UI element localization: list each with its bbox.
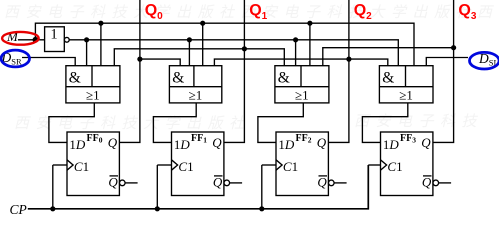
- wire CP riser FF0: [52, 165, 54, 209]
- node Mbar rail tap cell0: [84, 37, 89, 42]
- watermark row 2b: [354, 110, 483, 131]
- label Q1: [249, 4, 267, 24]
- node CP tap FF1: [155, 206, 160, 211]
- flip-flop FF2 box: [276, 132, 328, 196]
- label Q3: [458, 4, 476, 24]
- node M rail tap cell1: [200, 21, 205, 26]
- wire OR output to 1D cell3: [362, 103, 407, 142]
- label CP: [10, 204, 27, 215]
- blue ellipse around DSR: [0, 48, 33, 70]
- flip-flop FF3 box: [381, 132, 433, 196]
- node M input junction: [33, 37, 39, 43]
- wire OR output to 1D cell1: [153, 103, 196, 142]
- wire DSR input: [22, 58, 75, 66]
- wire Mbar stub cell0: [86, 40, 88, 66]
- wire Qbar stub FF1: [230, 182, 242, 184]
- node Q0 feedback tap: [137, 57, 142, 62]
- wire Q2 output: [328, 0, 349, 142]
- node CP tap FF0: [50, 206, 55, 211]
- wire CP rail: [28, 165, 369, 209]
- wire Q0 output: [119, 0, 139, 142]
- wire Q1 output: [224, 0, 245, 142]
- wire Qbar stub FF0: [125, 182, 137, 184]
- flip-flop FF0 clock wedge: [67, 160, 73, 170]
- flip-flop FF3 Qbar bubble: [433, 180, 439, 186]
- watermark row 1: [4, 1, 499, 22]
- wire Qbar stub FF3: [439, 182, 451, 184]
- AND gates cell3: [379, 66, 433, 103]
- node M rail tap cell2: [307, 21, 312, 26]
- node Mbar rail tap cell2: [293, 37, 298, 42]
- wire Q0 to cell1: [140, 59, 180, 66]
- wire OR output to 1D cell0: [49, 103, 94, 142]
- wire C1 input FF2: [262, 164, 276, 166]
- flip-flop FF1 Qbar bubble: [224, 180, 230, 186]
- flip-flop FF1 clock wedge: [172, 160, 178, 170]
- inverter U1 box: [45, 27, 65, 52]
- wire CP riser FF2: [261, 165, 263, 209]
- wire M stub cell2: [309, 23, 311, 65]
- wire Q3 output: [433, 0, 454, 142]
- watermark row 2: [14, 112, 251, 133]
- label Q2: [354, 4, 372, 24]
- AND gates cell1: [169, 66, 221, 103]
- wire Mbar rail: [69, 40, 398, 66]
- node Q3 feedback tap: [451, 45, 456, 50]
- wire M rail: [35, 23, 414, 65]
- blue ellipse around DSL: [467, 51, 499, 71]
- red ellipse around M: [0, 29, 42, 49]
- node Q2 feedback tap: [346, 57, 351, 62]
- wire M input: [18, 39, 45, 41]
- inverter U1 output bubble: [64, 37, 69, 42]
- node CP tap FF2: [259, 206, 264, 211]
- wire Q3 to cell2: [323, 48, 454, 66]
- wire M stub cell1: [202, 23, 204, 65]
- flip-flop FF0 Qbar bubble: [120, 180, 126, 186]
- label Q0: [145, 4, 163, 24]
- wire Q1 to cell0 and cell2: [114, 49, 284, 66]
- flip-flop FF1 box: [172, 132, 224, 196]
- wire Q2 to cell1 and cell3: [214, 59, 387, 66]
- flip-flop FF3 clock wedge: [381, 160, 387, 170]
- flip-flop FF2 Qbar bubble: [329, 180, 335, 186]
- node Q1 feedback tap: [242, 46, 247, 51]
- label DSL: [479, 54, 499, 68]
- wire C1 input FF1: [157, 164, 171, 166]
- flip-flop FF2 clock wedge: [276, 160, 282, 170]
- wire C1 input FF3: [368, 164, 380, 166]
- AND gates cell2: [275, 66, 329, 103]
- wire OR output to 1D cell2: [258, 103, 303, 142]
- wire Mbar stub cell2: [295, 40, 297, 66]
- label M: [7, 32, 18, 41]
- wire CP riser FF1: [156, 165, 158, 209]
- flip-flop FF0 box: [67, 132, 119, 196]
- node Mbar rail tap cell1: [187, 37, 192, 42]
- wire Qbar stub FF2: [334, 182, 346, 184]
- AND gates cell0: [66, 66, 120, 103]
- wire DSL input: [426, 58, 468, 66]
- wire M stub cell0: [100, 23, 102, 65]
- wire Mbar stub cell1: [188, 40, 190, 66]
- wire C1 input FF0: [53, 164, 67, 166]
- node M rail tap cell0: [98, 21, 103, 26]
- label DSR: [2, 53, 22, 67]
